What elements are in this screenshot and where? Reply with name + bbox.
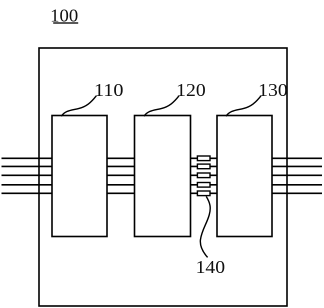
svg-text:130: 130: [258, 80, 288, 100]
svg-text:120: 120: [176, 80, 206, 100]
svg-text:110: 110: [94, 80, 124, 100]
svg-text:140: 140: [196, 257, 226, 277]
